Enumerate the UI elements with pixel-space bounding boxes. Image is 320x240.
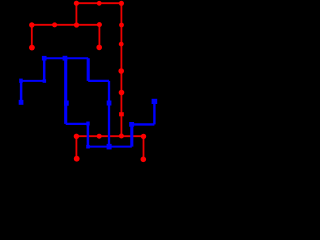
wire blue vertical x44 — [43, 58, 46, 81]
node red D1 — [119, 42, 124, 47]
node blue S6 — [152, 99, 158, 104]
wire red vertical x76 bottom — [75, 136, 77, 159]
node red A3 — [119, 1, 124, 6]
node red A2 — [97, 1, 102, 6]
node blue S8 — [107, 144, 112, 150]
node red H1 — [74, 134, 79, 139]
node blue corner c2 — [43, 79, 47, 83]
node blue corner c4 — [86, 145, 90, 149]
node red H4 — [141, 134, 146, 139]
node red B2 — [52, 22, 57, 27]
wire red vertical x143 — [143, 136, 145, 159]
wire red top horizontal — [76, 2, 121, 4]
wire blue vertical x154 — [153, 101, 155, 124]
node blue S3 — [19, 100, 24, 105]
node red C1 — [29, 45, 35, 51]
node red F1 — [119, 90, 125, 96]
wire blue vertical x88 lower — [87, 124, 90, 147]
node red B3 — [74, 22, 79, 27]
wire blue vertical x21 — [20, 81, 23, 102]
wire red mid horizontal — [32, 24, 100, 26]
node red B1 — [29, 22, 34, 27]
wire blue top horizontal y58 — [44, 57, 88, 59]
node red G1 square — [119, 112, 124, 116]
node red I1 — [74, 156, 80, 162]
wire red bottom horizontal — [76, 135, 143, 137]
node red C2 — [96, 45, 102, 51]
node red I2 — [141, 157, 147, 163]
node blue S7 — [129, 122, 134, 127]
wire blue vertical x65 — [64, 58, 67, 124]
wire blue horizontal y124 right — [132, 123, 155, 125]
node blue corner c1 — [19, 79, 23, 83]
node blue S1 — [42, 56, 47, 61]
node red H2 — [97, 134, 102, 139]
wire blue horizontal y124 left — [66, 123, 88, 125]
wire blue horizontal y81 left — [21, 80, 44, 82]
node red B5 — [119, 23, 124, 28]
node red E1 — [118, 68, 124, 74]
wire blue bottom horizontal y147 — [88, 146, 132, 148]
node blue S5 — [107, 101, 112, 106]
node red H3 — [119, 134, 124, 139]
wire red right vertical — [120, 3, 122, 136]
node blue corner c3 — [86, 122, 89, 126]
wire blue vertical x88 upper — [87, 58, 90, 81]
wire blue horizontal y81 right — [88, 80, 109, 82]
node blue S4 — [64, 101, 69, 106]
node red A1 — [74, 1, 79, 6]
wire red vertical x31 — [31, 25, 33, 48]
wire blue vertical x109 — [108, 81, 110, 147]
node blue S2 — [63, 56, 68, 61]
wire blue vertical x132 — [130, 124, 133, 146]
wire red upper-left vertical — [75, 3, 77, 25]
node red B4 — [97, 22, 102, 27]
wire red vertical x99 — [98, 25, 100, 48]
